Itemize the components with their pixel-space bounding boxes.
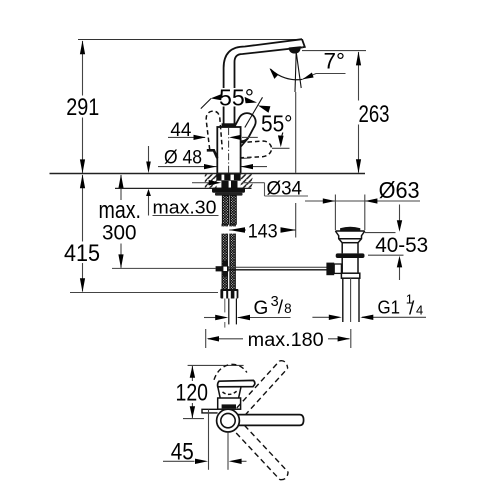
threaded shank — [222, 196, 236, 225]
svg-text:40-53: 40-53 — [375, 234, 428, 257]
dimension max.180 — [205, 329, 207, 348]
svg-text:G1: G1 — [378, 297, 401, 318]
plan lever — [218, 380, 255, 386]
svg-text:7°: 7° — [324, 48, 346, 73]
drain side inlet — [334, 264, 341, 273]
faucet spout — [224, 39, 305, 127]
svg-text:44: 44 — [170, 119, 191, 141]
drain plug cap — [341, 227, 360, 231]
svg-text:Ø34: Ø34 — [267, 177, 303, 199]
hose gap mask — [221, 226, 237, 233]
arc 7deg — [270, 69, 302, 80]
tick right — [241, 138, 248, 147]
dimension 40-53 — [365, 232, 396, 234]
handle hook left — [207, 150, 218, 158]
label 55 deg first — [218, 88, 256, 107]
mounting nut — [212, 188, 245, 193]
svg-text:45: 45 — [171, 438, 194, 465]
svg-text:55°: 55° — [261, 110, 293, 136]
drain body lower — [341, 258, 359, 278]
dimension 44 right arrow — [242, 136, 258, 138]
dimension D63 — [305, 200, 420, 202]
counter hatch left — [205, 174, 217, 187]
plan spout bar — [234, 415, 304, 426]
svg-text:4: 4 — [416, 303, 423, 318]
dimension 44 — [168, 136, 205, 138]
svg-text:291: 291 — [66, 94, 99, 121]
hose tails — [224, 299, 226, 313]
plan protrusion — [202, 409, 218, 413]
label G1 1/4 — [312, 316, 329, 318]
counter line — [50, 173, 366, 175]
aerator — [289, 47, 300, 53]
body centerline — [228, 128, 230, 174]
dimension 45 — [163, 460, 195, 462]
svg-text:max.180: max.180 — [248, 330, 324, 351]
supply hoses braided — [222, 224, 228, 290]
plan body band — [218, 398, 241, 409]
drain flange — [335, 231, 364, 253]
counter hatch right — [241, 174, 253, 187]
svg-text:/: / — [409, 299, 415, 320]
leader left of 55deg — [201, 99, 211, 109]
drain seal — [336, 253, 365, 258]
plan faucet circle — [217, 409, 240, 432]
plan lever dashed raised — [214, 364, 247, 379]
faucet body — [217, 127, 240, 174]
label D34 — [192, 182, 210, 184]
shank in hole — [221, 181, 228, 189]
lever raised dashed — [206, 111, 222, 149]
G 3/8 nuts — [220, 289, 238, 299]
svg-text:G: G — [254, 298, 269, 319]
washer — [215, 193, 243, 196]
dimension 291 — [82, 41, 84, 173]
wire stream vertical — [295, 52, 296, 92]
lever lowered dashed — [240, 141, 272, 158]
dimension 263 — [302, 50, 366, 52]
dimension 415 — [70, 175, 218, 293]
leader second 55deg down arrow — [281, 133, 282, 138]
wire top reference line — [78, 39, 302, 41]
dimension 120 — [188, 364, 244, 366]
dimension max.30 — [149, 146, 219, 216]
svg-text:55°: 55° — [219, 85, 254, 111]
svg-text:/: / — [278, 298, 284, 319]
dimension max.300 — [120, 175, 122, 268]
plan spout swivel down dashed — [236, 425, 288, 479]
lever solid position — [230, 110, 259, 144]
svg-text:Ø63: Ø63 — [379, 177, 420, 203]
drain tailpipe — [342, 278, 344, 322]
svg-text:max.30: max.30 — [153, 198, 217, 218]
svg-text:120: 120 — [176, 379, 209, 406]
svg-text:415: 415 — [64, 240, 100, 267]
leader lever centerline 55deg — [245, 97, 263, 127]
svg-text:263: 263 — [359, 101, 390, 128]
leader 7deg — [303, 74, 346, 80]
pop-up rod — [112, 267, 216, 269]
dimension D48 line — [158, 166, 267, 168]
rod cross fitting — [216, 266, 229, 271]
plan spout swivel up dashed — [237, 361, 288, 416]
svg-text:300: 300 — [102, 221, 137, 245]
svg-text:8: 8 — [284, 301, 292, 316]
wire lever tip extension — [272, 147, 290, 149]
cartridge cap — [222, 123, 236, 127]
faucet base seal — [216, 174, 240, 181]
label G 3/8 — [204, 317, 216, 319]
svg-text:Ø 48: Ø 48 — [164, 147, 202, 169]
counter slab bottom — [115, 187, 252, 189]
plan lever neck — [218, 387, 241, 398]
svg-text:143: 143 — [248, 222, 278, 243]
